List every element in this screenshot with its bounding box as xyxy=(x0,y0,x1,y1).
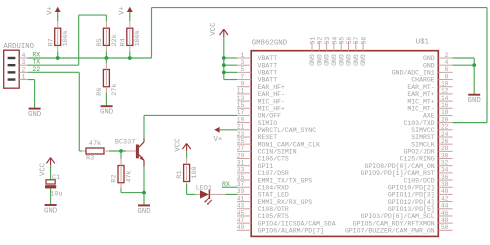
wire net 22: arduino pin2 row xyxy=(28,71,80,73)
svg-text:GND: GND xyxy=(337,54,344,66)
pin 42 GPIO12/PD[4] xyxy=(388,195,453,205)
wire R6 top lead xyxy=(105,58,107,64)
wire net RX: into pin 20 C103/TXD xyxy=(453,122,487,124)
resistor R1 100 xyxy=(176,157,199,187)
pin 2 GND xyxy=(423,52,453,62)
svg-text:MIC_HF-: MIC_HF- xyxy=(258,98,285,105)
wire net TX: horizontal to R5 xyxy=(79,14,107,16)
svg-text:GND: GND xyxy=(359,54,366,66)
svg-text:53: 53 xyxy=(324,36,331,44)
pin 24 SIMRST xyxy=(411,131,452,141)
svg-text:24: 24 xyxy=(441,131,449,138)
pin 7 VBATT xyxy=(237,73,277,83)
svg-text:ARDUINO: ARDUINO xyxy=(3,43,34,51)
svg-text:8: 8 xyxy=(445,73,449,80)
connector pin 2 xyxy=(8,66,28,73)
pin 9 EAR_HF+ xyxy=(237,81,285,91)
svg-text:VBATT: VBATT xyxy=(258,77,278,84)
svg-text:STAT_LED: STAT_LED xyxy=(258,192,289,199)
svg-text:V+: V+ xyxy=(47,6,55,15)
svg-text:47k: 47k xyxy=(125,170,133,182)
svg-text:C104/RXD: C104/RXD xyxy=(258,184,289,191)
svg-text:VBATT: VBATT xyxy=(258,55,278,62)
pin 46 GPIO3/PD[6]/CAM_SCL xyxy=(361,210,453,220)
svg-text:GPIO13/PD[5]: GPIO13/PD[5] xyxy=(388,206,435,213)
pin 31 GPI1 xyxy=(237,160,274,170)
svg-text:EAR_MT-: EAR_MT- xyxy=(407,84,434,91)
wire VBATT bus vertical xyxy=(223,58,225,80)
wire net 22: to R3 left lead xyxy=(79,150,82,152)
svg-text:50: 50 xyxy=(441,224,449,231)
svg-text:10u: 10u xyxy=(50,190,62,198)
wire net RX: arduino pin4 row to corner xyxy=(28,57,152,59)
ground (module) xyxy=(468,95,482,105)
svg-text:GPIO5/CAM_RDY/RFTXMON: GPIO5/CAM_RDY/RFTXMON xyxy=(353,220,435,227)
pin 15 MIC_HF+ xyxy=(237,102,285,112)
svg-text:GND: GND xyxy=(322,54,329,66)
svg-text:GND: GND xyxy=(468,97,482,105)
pin 33 C107/DSR xyxy=(237,167,289,177)
svg-text:VCC: VCC xyxy=(210,22,218,36)
svg-text:27: 27 xyxy=(237,145,245,152)
pin 43 C108/DTR xyxy=(237,203,289,213)
svg-text:27k: 27k xyxy=(111,83,119,95)
svg-text:37: 37 xyxy=(237,181,245,188)
svg-text:ON/OFF: ON/OFF xyxy=(258,113,282,120)
wire net TX: arduino pin3 row xyxy=(28,64,79,66)
svg-text:38: 38 xyxy=(441,181,449,188)
wire VBATT bus to pin 3 xyxy=(224,64,237,66)
svg-text:R4: R4 xyxy=(119,38,127,46)
svg-text:9: 9 xyxy=(240,81,244,88)
pin 52 GND (top) xyxy=(315,36,324,65)
svg-text:GND: GND xyxy=(330,54,337,66)
svg-text:58: 58 xyxy=(361,36,368,44)
svg-text:31: 31 xyxy=(237,160,245,167)
svg-text:RESET: RESET xyxy=(258,134,278,141)
ground (C1) xyxy=(44,205,58,215)
svg-text:TX: TX xyxy=(32,59,40,66)
svg-text:30: 30 xyxy=(441,152,449,159)
svg-text:R7: R7 xyxy=(47,38,55,46)
wire V+ to R7 xyxy=(57,12,59,21)
svg-text:R2: R2 xyxy=(111,174,119,182)
svg-text:R5: R5 xyxy=(96,38,104,46)
svg-text:16: 16 xyxy=(441,102,449,109)
wire V+ to pin 21 PWRCTL xyxy=(220,129,237,131)
wire R2 bottom xyxy=(120,188,122,192)
wire R1 to LED xyxy=(186,184,188,194)
svg-text:GND: GND xyxy=(423,55,435,62)
pin 48 GPIO5/CAM_RDY/RFTXMON xyxy=(353,217,453,227)
wire LED to pin 39 STAT_LED xyxy=(225,193,237,195)
pin 22 SIMVCC xyxy=(411,124,452,134)
connector pin 1 xyxy=(8,74,28,81)
pin 41 EMMI_RX/RX_GPS xyxy=(237,195,313,205)
pin 37 C104/RXD xyxy=(237,181,289,191)
pin 12 EAR_MT+ xyxy=(407,88,452,98)
svg-text:1: 1 xyxy=(240,52,244,59)
resistor R3 47k (horizontal) xyxy=(82,140,109,162)
junction VBATT bus row 5 xyxy=(222,70,226,74)
svg-text:2: 2 xyxy=(22,66,26,73)
pin 56 GND (top) xyxy=(344,36,353,65)
ground (emitter) xyxy=(137,205,151,215)
svg-text:32: 32 xyxy=(441,160,449,167)
svg-text:13: 13 xyxy=(237,95,245,102)
supply VCC (C1) xyxy=(40,158,55,176)
svg-text:SIMCLK: SIMCLK xyxy=(411,141,435,148)
wire node row: R4 bottom xyxy=(129,51,131,58)
pin 58 GND (top) xyxy=(359,36,368,65)
wire pin 2 GND xyxy=(453,57,475,59)
svg-text:21: 21 xyxy=(237,124,245,131)
connector pin 4 xyxy=(8,52,28,59)
wire C1 to ground xyxy=(50,188,52,204)
pin 17 ON/OFF xyxy=(237,109,281,119)
svg-text:GPIO10/PD[2]: GPIO10/PD[2] xyxy=(388,184,435,191)
svg-text:PWRCTL/CAM_SYNC: PWRCTL/CAM_SYNC xyxy=(258,127,317,134)
resistor R4 100k xyxy=(119,21,142,51)
resistor R7 100k xyxy=(47,21,70,51)
svg-text:15: 15 xyxy=(237,102,245,109)
svg-text:EAR_HF+: EAR_HF+ xyxy=(258,84,285,91)
svg-text:SIMRST: SIMRST xyxy=(411,134,435,141)
junction at R7 bottom xyxy=(56,56,60,60)
svg-text:4: 4 xyxy=(22,52,26,59)
pin 57 GND (top) xyxy=(351,36,360,65)
pin 35 EMMI_TX/TX_GPS xyxy=(237,174,313,184)
pin 50 GPIO7/BUZZER/CAM_PWR_ON xyxy=(345,224,453,234)
svg-text:MIC_HF+: MIC_HF+ xyxy=(258,105,285,112)
svg-text:4: 4 xyxy=(445,59,449,66)
svg-text:20: 20 xyxy=(441,116,449,123)
wire arduino pin1 to ground xyxy=(28,79,35,81)
svg-text:GPIO9/PD[1]/CAM_RST: GPIO9/PD[1]/CAM_RST xyxy=(361,170,435,177)
svg-text:C109/DCD: C109/DCD xyxy=(403,177,434,184)
pin 5 VBATT xyxy=(237,66,277,76)
wire net RX: vertical riser xyxy=(151,8,153,58)
svg-text:SIMVCC: SIMVCC xyxy=(411,127,435,134)
supply VCC (VBATT bus) xyxy=(210,22,228,37)
svg-text:22k: 22k xyxy=(111,34,119,46)
svg-text:GND: GND xyxy=(28,111,42,119)
pin 29 C106/CTS xyxy=(237,152,289,162)
svg-text:44: 44 xyxy=(441,203,449,210)
svg-text:C106/CTS: C106/CTS xyxy=(258,156,289,163)
svg-text:GND: GND xyxy=(100,109,114,117)
svg-text:43: 43 xyxy=(237,203,245,210)
svg-text:6: 6 xyxy=(445,66,449,73)
pin 16 MIC_MT- xyxy=(407,102,452,112)
svg-text:47: 47 xyxy=(237,217,245,224)
svg-text:48: 48 xyxy=(441,217,449,224)
wire VCC stem xyxy=(223,37,225,58)
svg-text:39: 39 xyxy=(237,188,245,195)
svg-text:100k: 100k xyxy=(62,30,70,46)
pin 6 GND/ADC_IN1 xyxy=(392,66,453,76)
svg-text:GPIO8/PD[0]/CAM_ON: GPIO8/PD[0]/CAM_ON xyxy=(364,163,434,170)
pin 45 C105/RTS xyxy=(237,210,289,220)
svg-text:22: 22 xyxy=(32,66,40,73)
svg-text:RX: RX xyxy=(32,51,40,58)
wire V+ to R4 xyxy=(129,12,131,21)
wire VBATT bus to pin 5 xyxy=(224,71,237,73)
pin 4 GND xyxy=(423,59,453,69)
junction VBATT bus row 3 xyxy=(222,63,226,67)
wire VCC to R1 xyxy=(186,151,188,158)
junction VBATT bus row 1 xyxy=(222,56,226,60)
svg-text:BC337: BC337 xyxy=(115,139,135,147)
wire VCC to C1 xyxy=(50,165,52,179)
svg-text:GPIO3/PD[6]/CAM_SCL: GPIO3/PD[6]/CAM_SCL xyxy=(361,213,435,220)
svg-text:CHARGE: CHARGE xyxy=(411,77,435,84)
svg-text:GPIO12/PD[4]: GPIO12/PD[4] xyxy=(388,199,435,206)
svg-text:V+: V+ xyxy=(214,136,223,144)
resistor R5 22k xyxy=(96,21,119,51)
pin 21 PWRCTL/CAM_SYNC xyxy=(237,124,316,134)
svg-text:3: 3 xyxy=(22,59,26,66)
supply VCC (R1) xyxy=(175,138,191,152)
svg-text:45: 45 xyxy=(237,210,245,217)
svg-text:10: 10 xyxy=(441,81,449,88)
svg-text:28: 28 xyxy=(441,145,449,152)
svg-text:33: 33 xyxy=(237,167,245,174)
svg-text:CCIN/SIMIN: CCIN/SIMIN xyxy=(258,149,297,156)
pin 10 EAR_MT- xyxy=(407,81,452,91)
svg-text:18: 18 xyxy=(441,109,449,116)
pin 19 SIMIO xyxy=(237,116,277,126)
junction GND right xyxy=(472,63,476,67)
pin 25 MON1_CAM/CAM_CLK xyxy=(237,138,320,148)
pin 11 EAR_HF- xyxy=(237,88,285,98)
svg-text:VCC: VCC xyxy=(175,138,183,152)
pin 26 SIMCLK xyxy=(411,138,452,148)
svg-text:GPI1: GPI1 xyxy=(258,163,274,170)
svg-text:R6: R6 xyxy=(96,88,104,96)
pin 23 RESET xyxy=(237,131,277,141)
svg-text:3: 3 xyxy=(240,59,244,66)
svg-text:GND/ADC_IN1: GND/ADC_IN1 xyxy=(392,70,435,77)
svg-text:5: 5 xyxy=(240,66,244,73)
svg-text:GND: GND xyxy=(344,54,351,66)
supply V+ (R4) xyxy=(119,6,133,15)
pin 1 VBATT xyxy=(237,52,277,62)
junction at R4 bottom xyxy=(128,56,132,60)
svg-text:C105/RTS: C105/RTS xyxy=(258,213,289,220)
pin 13 MIC_HF- xyxy=(237,95,285,105)
pin 36 C109/DCD xyxy=(403,174,452,184)
svg-text:MIC_MT+: MIC_MT+ xyxy=(407,98,434,105)
svg-text:GND: GND xyxy=(423,62,435,69)
svg-text:GND: GND xyxy=(308,54,315,66)
junction at R5/R6 node xyxy=(105,56,109,60)
wire emitter to ground xyxy=(143,166,145,205)
wire R6 to ground xyxy=(105,93,107,107)
svg-text:40: 40 xyxy=(441,188,449,195)
svg-text:100k: 100k xyxy=(134,30,142,46)
svg-text:GPIO4/IICSDA/CAM_SDA: GPIO4/IICSDA/CAM_SDA xyxy=(258,220,336,227)
pin 34 GPIO9/PD[1]/CAM_RST xyxy=(361,167,453,177)
wire collector to ON/OFF pin 17 xyxy=(143,115,145,138)
LED LED1 xyxy=(195,184,225,205)
svg-text:1: 1 xyxy=(22,74,26,81)
svg-text:R1: R1 xyxy=(176,170,184,178)
svg-text:EAR_MT+: EAR_MT+ xyxy=(407,91,434,98)
pin 55 GND (top) xyxy=(337,36,346,65)
svg-text:C107/DSR: C107/DSR xyxy=(258,170,289,177)
pin 30 C125/RING xyxy=(400,152,453,162)
pin 8 CHARGE xyxy=(411,73,452,83)
wire net TX: riser to R5 top xyxy=(78,15,80,65)
pin 54 GND (top) xyxy=(330,36,339,65)
supply V+ (pin 21) xyxy=(214,127,223,144)
svg-text:GM862GND: GM862GND xyxy=(252,39,288,47)
wire node row: R5 bottom xyxy=(105,51,107,58)
pin 14 MIC_MT+ xyxy=(407,95,452,105)
svg-text:55: 55 xyxy=(339,36,346,44)
svg-text:GPO2/JDR: GPO2/JDR xyxy=(403,149,434,156)
svg-text:GND: GND xyxy=(351,54,358,66)
supply V+ (R7) xyxy=(47,6,61,15)
svg-text:19: 19 xyxy=(237,116,245,123)
ground (arduino) xyxy=(28,109,42,119)
svg-text:U$1: U$1 xyxy=(416,39,430,47)
svg-text:29: 29 xyxy=(237,152,245,159)
svg-text:42: 42 xyxy=(441,195,449,202)
junction base/R2 xyxy=(119,149,123,153)
svg-text:41: 41 xyxy=(237,195,245,202)
svg-text:V+: V+ xyxy=(119,6,127,15)
svg-text:46: 46 xyxy=(441,210,449,217)
wire net RX stub to pin 37 C104/RXD xyxy=(222,186,237,188)
svg-text:26: 26 xyxy=(441,138,449,145)
wire node row: R7 bottom xyxy=(57,51,59,58)
pin 40 GPIO11/PD[3] xyxy=(388,188,453,198)
svg-text:7: 7 xyxy=(240,73,244,80)
svg-text:22: 22 xyxy=(441,124,449,131)
svg-text:14: 14 xyxy=(441,95,449,102)
pin 27 CCIN/SIMIN xyxy=(237,145,297,155)
svg-text:47k: 47k xyxy=(89,140,101,148)
wire R3 to base junction xyxy=(109,150,126,152)
pin 39 STAT_LED xyxy=(237,188,289,198)
resistor R6 27k xyxy=(96,63,119,96)
svg-text:EMMI_TX/TX_GPS: EMMI_TX/TX_GPS xyxy=(258,177,313,184)
junction emitter/R2 xyxy=(142,191,146,195)
svg-text:C103/TXD: C103/TXD xyxy=(403,120,434,127)
svg-text:57: 57 xyxy=(353,36,360,44)
transistor Q1 BC337 xyxy=(115,138,144,166)
pin 20 C103/TXD xyxy=(403,116,452,126)
svg-text:RX: RX xyxy=(222,181,230,188)
wire net RX: right edge drop xyxy=(486,8,488,123)
svg-text:VCC: VCC xyxy=(40,162,48,176)
pin 49 GPIO6/ALARM/PD[7] xyxy=(237,224,324,234)
svg-text:GND: GND xyxy=(315,54,322,66)
svg-text:MIC_MT-: MIC_MT- xyxy=(407,105,434,112)
pin 3 VBATT xyxy=(237,59,277,69)
pin 18 AXE xyxy=(423,109,453,119)
svg-text:100: 100 xyxy=(191,166,199,178)
ground (R6) xyxy=(100,106,114,116)
pin 32 GPIO8/PD[0]/CAM_ON xyxy=(364,160,452,170)
pin 44 GPIO13/PD[5] xyxy=(388,203,453,213)
svg-text:12: 12 xyxy=(441,88,449,95)
svg-text:23: 23 xyxy=(237,131,245,138)
pin 38 GPIO10/PD[2] xyxy=(388,181,453,191)
svg-text:R3: R3 xyxy=(86,154,94,162)
wire VBATT bus to pin 7 xyxy=(224,79,237,81)
svg-text:52: 52 xyxy=(317,36,324,44)
IC U1 GM862 body xyxy=(251,51,438,237)
svg-text:34: 34 xyxy=(441,167,449,174)
pin 47 GPIO4/IICSDA/CAM_SDA xyxy=(237,217,336,227)
pin 53 GND (top) xyxy=(322,36,331,65)
wire down to ground symbol xyxy=(473,65,475,94)
connector ARDUINO xyxy=(3,43,34,88)
connector pin 3 xyxy=(8,59,28,66)
wire net 22: drop to R3 xyxy=(78,72,80,151)
svg-text:EMMI_RX/RX_GPS: EMMI_RX/RX_GPS xyxy=(258,199,313,206)
svg-text:VBATT: VBATT xyxy=(258,70,278,77)
svg-text:GPIO7/BUZZER/CAM_PWR_ON: GPIO7/BUZZER/CAM_PWR_ON xyxy=(345,228,435,235)
svg-text:49: 49 xyxy=(237,224,245,231)
svg-text:35: 35 xyxy=(237,174,245,181)
svg-text:51: 51 xyxy=(309,36,316,44)
svg-text:36: 36 xyxy=(441,174,449,181)
svg-text:AXE: AXE xyxy=(423,113,435,120)
wire VBATT bus to pin 1 xyxy=(224,57,237,59)
svg-text:17: 17 xyxy=(237,109,245,116)
svg-text:VBATT: VBATT xyxy=(258,62,278,69)
svg-text:GPIO6/ALARM/PD[7]: GPIO6/ALARM/PD[7] xyxy=(258,228,324,235)
svg-text:MON1_CAM/CAM_CLK: MON1_CAM/CAM_CLK xyxy=(258,141,321,148)
svg-text:EAR_HF-: EAR_HF- xyxy=(258,91,285,98)
wire pin 4 GND xyxy=(453,64,475,66)
svg-text:56: 56 xyxy=(346,36,353,44)
svg-text:SIMIO: SIMIO xyxy=(258,120,278,127)
svg-text:11: 11 xyxy=(237,88,245,95)
svg-text:C108/DTR: C108/DTR xyxy=(258,206,289,213)
pin 51 GND (top) xyxy=(308,36,317,65)
svg-text:C125/RING: C125/RING xyxy=(400,156,435,163)
wire net TX: down to R5 xyxy=(105,15,107,21)
pin 28 GPO2/JDR xyxy=(403,145,452,155)
capacitor C1 10u xyxy=(45,174,63,198)
svg-text:GPIO11/PD[3]: GPIO11/PD[3] xyxy=(388,192,435,199)
svg-text:25: 25 xyxy=(237,138,245,145)
svg-text:54: 54 xyxy=(331,36,338,44)
svg-text:2: 2 xyxy=(445,52,449,59)
svg-text:GND: GND xyxy=(44,207,58,215)
wire net RX: top horizontal run xyxy=(152,7,488,9)
resistor R2 47k xyxy=(120,151,122,159)
svg-text:GND: GND xyxy=(137,208,151,216)
